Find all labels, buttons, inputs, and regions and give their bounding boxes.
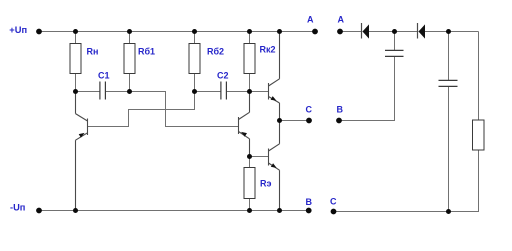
- svg-text:-Uп: -Uп: [10, 202, 25, 212]
- svg-text:Rб2: Rб2: [207, 47, 224, 57]
- node terminal C right circuit: [331, 209, 337, 215]
- wire Rn top lead: [75, 32, 77, 44]
- node Rk2 top: [247, 29, 252, 34]
- node Y diode junction: [446, 29, 451, 34]
- svg-text:C: C: [330, 197, 337, 207]
- resistor Rk2: [244, 44, 255, 74]
- wire cap C3 down and left to terminal B: [339, 57, 395, 121]
- node VT4 emitter bottom: [277, 208, 282, 213]
- transistor VT1 (PNP, facing left): [76, 92, 88, 211]
- wire node Y to right corner: [449, 31, 479, 33]
- node terminal C left circuit: [306, 118, 312, 124]
- node terminal A left: [312, 29, 318, 35]
- wire Rb2 bottom lead: [194, 74, 196, 92]
- wire Rb2 node to C2: [195, 91, 221, 93]
- svg-text:Rк2: Rк2: [260, 45, 276, 55]
- wire output C node: [280, 120, 310, 122]
- svg-text:A: A: [338, 15, 345, 25]
- node terminal B left circuit: [306, 208, 312, 214]
- svg-text:B: B: [337, 105, 344, 115]
- wire D1 to node X: [363, 31, 395, 33]
- wire right corner down to load resistor: [478, 32, 480, 121]
- node output C: [277, 118, 282, 123]
- wire Rb2 node to VT1 base (down, left, down, left): [88, 92, 195, 127]
- svg-text:Rн: Rн: [87, 47, 99, 57]
- wire C2 to Rk2 node: [227, 91, 250, 93]
- wire Rn bottom lead: [75, 74, 77, 92]
- node Re bottom: [247, 208, 252, 213]
- transistor VT4 (NPN, facing right): [269, 121, 280, 211]
- wire Rb1 top lead: [129, 32, 131, 44]
- node Rb1 top: [127, 29, 132, 34]
- node VT1 emitter bottom: [73, 208, 78, 213]
- wire Rb1 bottom lead: [129, 74, 131, 92]
- node Rb1 bottom: [127, 89, 132, 94]
- svg-text:C1: C1: [98, 71, 110, 81]
- node Rb2 top: [192, 29, 197, 34]
- svg-text:Rб1: Rб1: [138, 47, 155, 57]
- wire node X down to cap C3: [394, 32, 396, 51]
- node +U terminal: [36, 29, 42, 35]
- resistor load right: [473, 120, 485, 150]
- transistor VT2 (PNP, facing right): [239, 92, 250, 157]
- wire Re top lead: [249, 157, 251, 168]
- node C4 bottom rail: [446, 209, 451, 214]
- wire load resistor down to bottom rail: [449, 150, 479, 212]
- wire right circuit A to D1: [340, 31, 362, 33]
- node Rn top: [73, 29, 78, 34]
- wire Rb1 node to VT2 base (right, down, right): [130, 92, 239, 127]
- wire node Rn to C1: [76, 91, 100, 93]
- wire D2 to node Y: [419, 31, 449, 33]
- svg-text:C2: C2: [217, 71, 229, 81]
- wire Re bottom lead: [249, 199, 251, 211]
- wire Rk2 bottom lead: [249, 74, 251, 92]
- node terminal A right circuit: [337, 29, 343, 35]
- transistor VT3 (NPN, facing right): [269, 32, 280, 121]
- wire Rk2 top lead: [249, 32, 251, 44]
- wire top rail +U: [39, 31, 315, 33]
- diode D2: [418, 23, 426, 39]
- resistor Rn: [70, 44, 81, 74]
- node -U terminal: [36, 208, 42, 214]
- node X diode junction: [392, 29, 397, 34]
- svg-text:A: A: [307, 15, 314, 25]
- wire C1 to Rb1 node: [106, 91, 130, 93]
- wire cap C4 down to bottom rail: [448, 87, 450, 212]
- node Rn bottom / C1: [73, 89, 78, 94]
- node VT2 emitter / VT4 base: [247, 154, 252, 159]
- svg-text:+Uп: +Uп: [9, 25, 27, 35]
- wire node X to D2: [395, 31, 418, 33]
- resistor Rb1: [124, 44, 135, 74]
- wire VT2 emitter node to VT4 base: [250, 156, 269, 158]
- capacitor C2: [221, 82, 227, 100]
- wire right circuit bottom rail: [334, 211, 449, 213]
- svg-text:B: B: [306, 197, 313, 207]
- node VT3 collector top: [277, 29, 282, 34]
- svg-text:Rэ: Rэ: [260, 179, 271, 189]
- svg-text:C: C: [306, 105, 313, 115]
- node terminal B right circuit: [336, 118, 342, 124]
- resistor Re: [244, 168, 255, 199]
- wire node Rk2 to VT3 base: [250, 91, 269, 93]
- wire node Y down to cap C4: [448, 32, 450, 81]
- resistor Rb2: [189, 44, 200, 74]
- capacitor C1: [100, 82, 106, 100]
- wire Rb2 top lead: [194, 32, 196, 44]
- diode D1: [362, 23, 370, 39]
- node Rb2 bottom: [192, 89, 197, 94]
- node Rk2 bottom / VT3 base: [247, 89, 252, 94]
- capacitor C3 (right circuit upper): [385, 50, 404, 56]
- capacitor C4 (right circuit lower): [439, 80, 458, 86]
- wire bottom rail -U: [39, 210, 309, 212]
